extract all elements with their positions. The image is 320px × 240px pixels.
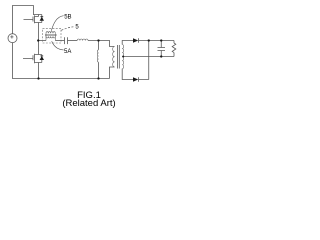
svg-text:5A: 5A: [64, 49, 71, 55]
svg-text:5: 5: [75, 25, 79, 31]
svg-text:5B: 5B: [64, 14, 71, 20]
